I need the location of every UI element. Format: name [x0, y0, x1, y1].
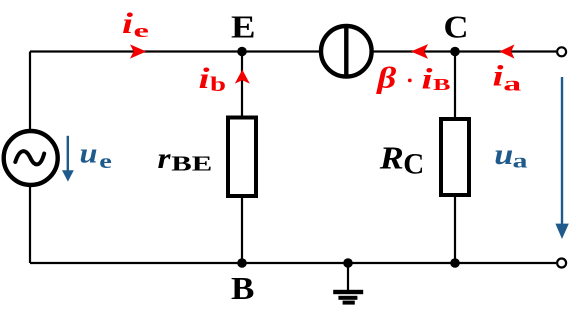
wire ground stem — [347, 263, 349, 290]
wire left vertical through source — [29, 52, 31, 264]
svg-text:e: e — [99, 149, 112, 173]
svg-text:B: B — [433, 75, 451, 94]
arrow ue blue down — [62, 136, 74, 182]
node C dot — [450, 47, 460, 57]
controlled current source — [321, 25, 372, 78]
node E dot — [237, 47, 247, 57]
wire branch node C down — [454, 52, 456, 264]
arrow ua blue down — [555, 77, 568, 239]
svg-text:u: u — [494, 138, 513, 171]
node ground junction dot — [343, 258, 353, 268]
wire top from source to right terminal — [30, 50, 556, 52]
arrow ib pointing up — [235, 70, 250, 84]
svg-text:E: E — [231, 9, 256, 45]
label ib — [199, 62, 227, 96]
node RC bottom dot — [450, 258, 460, 268]
svg-text:R: R — [379, 140, 404, 176]
label ue — [80, 138, 112, 173]
label RC — [379, 140, 425, 181]
svg-text:i: i — [422, 62, 434, 95]
svg-text:B: B — [231, 270, 254, 306]
label ie — [122, 7, 149, 42]
svg-text:C: C — [403, 149, 424, 181]
svg-text:u: u — [80, 138, 98, 169]
arrow beta-iB pointing left — [411, 44, 428, 59]
svg-text:r: r — [158, 142, 171, 175]
svg-text:β: β — [376, 61, 397, 94]
wire branch node E to node B — [241, 52, 243, 264]
ac voltage source — [4, 131, 58, 185]
svg-text:b: b — [210, 72, 226, 96]
svg-text:a: a — [513, 151, 528, 173]
arrow ia pointing left — [499, 44, 514, 58]
label ua — [494, 138, 527, 173]
svg-text:e: e — [134, 21, 149, 42]
terminal top right — [557, 47, 566, 56]
svg-text:i: i — [122, 7, 134, 40]
resistor RC body — [441, 119, 469, 195]
label beta-iB — [376, 61, 450, 95]
label ia — [493, 60, 522, 96]
arrow ie pointing right — [130, 44, 146, 58]
wire bottom — [30, 262, 556, 264]
terminal bottom right — [557, 259, 566, 268]
svg-text:BE: BE — [171, 152, 212, 176]
svg-text:C: C — [444, 9, 469, 45]
ground symbol — [333, 290, 363, 305]
svg-text:a: a — [503, 73, 521, 95]
resistor rBE body — [228, 118, 256, 197]
node B dot — [237, 258, 247, 268]
label rBE — [158, 142, 213, 176]
svg-text:i: i — [199, 62, 211, 95]
